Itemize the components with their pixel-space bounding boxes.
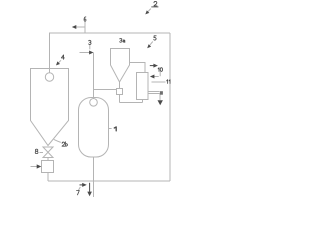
label 10 [158, 68, 162, 72]
label 7 [77, 191, 80, 195]
valve 8 [43, 147, 53, 158]
vessel hopper 2a body [31, 69, 69, 146]
vessel hopper 3a body [111, 49, 130, 83]
wire box to bottom pipe [47, 173, 49, 182]
wire leader label 2b [54, 139, 61, 142]
label 3a [120, 38, 125, 42]
arrowhead column out 10 [153, 64, 158, 68]
fitting at stub elbow [160, 91, 163, 95]
wire transfer line bottom [120, 102, 143, 104]
wire arrow into box 9 [31, 166, 38, 168]
box small feeder [117, 89, 123, 95]
arrowhead into column [150, 75, 155, 79]
wire column inlet 10 [154, 76, 159, 78]
label 2b [62, 142, 67, 146]
wire bottom pipe [48, 180, 170, 182]
wire leader label 4 [58, 60, 61, 63]
arrowhead leader 4 [56, 61, 60, 65]
wire leader label 1 [109, 128, 112, 130]
arrowhead product down [158, 100, 163, 105]
wire leader label 2 [147, 9, 151, 13]
label 1 [114, 127, 116, 131]
arrowhead leader 2 [145, 10, 149, 14]
label 5 [154, 36, 156, 40]
wire stub elbow down [159, 94, 161, 101]
wire column stub lower [148, 93, 160, 95]
label 11 [167, 80, 170, 84]
wire chamber top pipe [93, 53, 95, 99]
wire chamber bottom outlet [93, 157, 95, 197]
wire top pipe [49, 32, 170, 34]
wire leader label 5 [149, 42, 153, 47]
node hopper inlet circle [45, 73, 53, 81]
label 3 [89, 40, 92, 44]
label 2 [154, 1, 157, 6]
wire leader 10 [159, 72, 161, 76]
vessel chamber 1 [79, 98, 109, 158]
wire leader label 7 [78, 187, 80, 191]
label 6 [84, 17, 86, 21]
arrowhead leader 5 [147, 44, 151, 48]
wire column stub upper [148, 91, 160, 93]
underline of 2 [151, 6, 158, 8]
wire leader label 3 [89, 45, 91, 50]
wire small feeder down [119, 95, 121, 103]
label 8 [35, 149, 38, 153]
wire column bottom pipe [142, 100, 144, 103]
wire leader label 8 [40, 152, 44, 154]
arrowhead bottom annotation 7 [82, 183, 87, 187]
wire leader 11 [152, 81, 166, 83]
wire valve to box [47, 158, 49, 161]
box feeder [42, 161, 54, 173]
wire annotation 6 vertical [84, 22, 86, 34]
node chamber inlet circle [90, 99, 98, 107]
wire tail annotation 7 [80, 184, 84, 185]
arrowhead chamber outlet down [87, 192, 92, 197]
wire right pipe [169, 33, 171, 181]
arrowhead into pipe node 3 [89, 51, 93, 55]
column 5 body [137, 73, 149, 100]
wire outlet flow arrow shaft [89, 183, 90, 192]
wire annotation 6 arrow line [75, 26, 86, 28]
wire inlet stub at node 3 [80, 52, 91, 54]
arrowhead into box 9 [37, 164, 42, 168]
arrowhead out 6 [72, 25, 77, 29]
wire hopper 3a outlet [119, 82, 121, 89]
wire branch to feeder box [94, 89, 117, 91]
wire hopper 3a to column [130, 63, 146, 73]
wire tail 10 [150, 65, 155, 66]
wire left down pipe [49, 33, 51, 73]
label 4 [61, 55, 64, 59]
